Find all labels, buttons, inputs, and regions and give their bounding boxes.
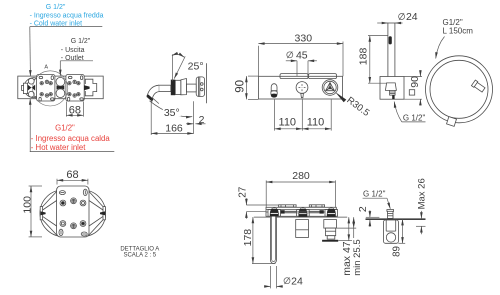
svg-text:68: 68: [69, 104, 81, 116]
svg-text:G 1/2": G 1/2": [71, 38, 91, 45]
detail circle A: [33, 71, 68, 106]
wall line (side view): [366, 218, 426, 220]
dimension 100 (detail): [22, 186, 43, 237]
hose end fitting right: [471, 80, 485, 93]
dimension diameter 45: [286, 49, 317, 76]
right fitting lobe: [59, 190, 106, 237]
dimension 90 (holder): [404, 70, 422, 105]
mounting bar: [18, 76, 103, 99]
svg-text:89: 89: [392, 246, 403, 257]
svg-text:90: 90: [234, 80, 246, 93]
holder block: [380, 77, 404, 100]
dimension diameter 24 (tube): [264, 266, 303, 288]
dimension 166: [151, 100, 193, 136]
centre outlet fitting: [56, 77, 65, 97]
small square detail: [409, 90, 414, 95]
svg-text:280: 280: [292, 170, 310, 182]
dimension 68 (detail): [57, 169, 88, 184]
svg-text:24: 24: [406, 11, 418, 23]
dimension 90 (front view height): [234, 76, 258, 99]
central mounting plate (detail): [57, 186, 89, 237]
svg-text:100: 100: [22, 196, 34, 214]
hot water label (red): [30, 99, 115, 152]
svg-text:G1/2": G1/2": [443, 18, 463, 27]
35 degree dimension: [150, 98, 193, 119]
hose label: [436, 18, 474, 59]
holder body (side): [384, 220, 399, 243]
svg-text:2: 2: [357, 206, 369, 212]
svg-text:2: 2: [199, 114, 205, 126]
dimension 27: [237, 186, 278, 219]
dimension 178: [242, 217, 275, 263]
spout tube (top view): [270, 217, 276, 264]
svg-text:35°: 35°: [164, 107, 180, 119]
svg-text:L 150cm: L 150cm: [443, 27, 474, 36]
wall line: [206, 63, 208, 103]
spout straight body: [159, 79, 196, 96]
25 degree dimension: [172, 54, 204, 81]
wall line (top view): [254, 216, 347, 218]
dimension min 25.5: [337, 217, 363, 276]
dimension 280: [266, 170, 335, 207]
right knob (thermostat): [322, 80, 338, 96]
svg-text:178: 178: [242, 229, 254, 247]
mounting rail right: [309, 205, 324, 207]
svg-text:188: 188: [358, 48, 370, 66]
valve tops: [268, 208, 338, 217]
nipple ext line: [366, 216, 380, 218]
bar (top view): [266, 207, 336, 216]
cold water label (blue): [30, 4, 104, 76]
svg-text:27: 27: [237, 186, 248, 198]
svg-text:68: 68: [66, 169, 78, 181]
svg-text:Max 26: Max 26: [416, 178, 427, 209]
G 1/2 label (holder): [394, 102, 425, 123]
svg-text:- Ingresso acqua fredda: - Ingresso acqua fredda: [30, 12, 104, 19]
svg-text:24: 24: [291, 276, 303, 288]
left mounting plate: [37, 75, 55, 102]
dimension 2 (spout): [186, 114, 206, 126]
svg-text:110: 110: [307, 117, 325, 129]
svg-text:min 25.5: min 25.5: [352, 239, 363, 275]
svg-text:25°: 25°: [188, 60, 204, 72]
svg-text:R30.5: R30.5: [344, 95, 371, 119]
svg-text:110: 110: [279, 117, 297, 129]
svg-text:SCALA 2 : 5: SCALA 2 : 5: [123, 252, 156, 258]
dimension 330: [258, 32, 343, 76]
wall escutcheon plate: [196, 77, 204, 97]
spout outlet: [271, 84, 277, 98]
left inlet fitting (cold): [22, 78, 44, 98]
shower shaft: [388, 23, 395, 83]
dimension 2 (nipple): [357, 206, 370, 227]
right valve body below wall: [322, 220, 338, 242]
right mounting plate: [66, 75, 84, 102]
R30.5 leader and label: [335, 92, 371, 119]
mounting rail left: [279, 205, 297, 207]
svg-text:A: A: [44, 64, 48, 70]
G 1/2 label (bottom): [363, 190, 391, 209]
mixer body: [259, 76, 343, 99]
dimension 68 (view 1): [66, 102, 83, 117]
centre knob (diverter): [296, 82, 308, 98]
dimension 188: [358, 36, 388, 84]
extension line from plate: [193, 101, 195, 134]
dimension max 47: [338, 217, 353, 276]
svg-text:G1/2": G1/2": [55, 123, 75, 132]
G 1/2 nipple: [387, 210, 394, 219]
dimension 89: [392, 219, 406, 257]
svg-text:45: 45: [296, 49, 308, 61]
left fitting lobe: [40, 190, 87, 237]
svg-text:330: 330: [295, 32, 313, 44]
svg-text:G 1/2": G 1/2": [46, 4, 66, 11]
hose end fitting bottom: [447, 117, 457, 127]
curved spout nose: [146, 85, 159, 102]
centre valve body below wall: [296, 220, 309, 238]
svg-text:166: 166: [165, 123, 183, 135]
svg-text:90: 90: [409, 76, 421, 88]
dimensions 110 / 110: [275, 100, 332, 131]
dimension Max 26: [416, 178, 427, 234]
svg-text:G 1/2": G 1/2": [403, 113, 426, 122]
svg-text:- Hot water inlet: - Hot water inlet: [31, 143, 86, 152]
svg-text:- Ingresso acqua calda: - Ingresso acqua calda: [31, 134, 111, 143]
dimension diameter 24 (hand shower): [377, 11, 418, 23]
svg-text:- Uscita: - Uscita: [61, 47, 85, 54]
outlet label (black): [60, 38, 93, 76]
svg-text:G 1/2": G 1/2": [363, 190, 386, 199]
right outlet elbow fitting: [84, 79, 97, 96]
backplates: [280, 74, 308, 79]
